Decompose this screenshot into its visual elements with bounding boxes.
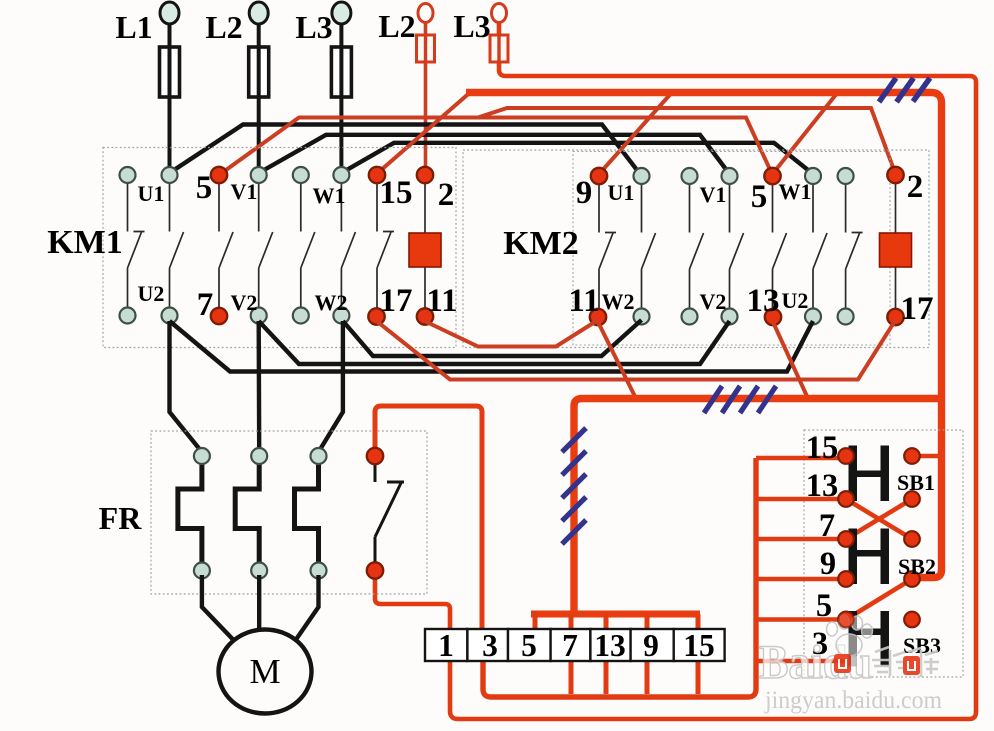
terminal L2 control (red) xyxy=(418,4,433,23)
wire motor bus W (KM1-W2 to KM2) xyxy=(343,320,642,356)
svg-text:13: 13 xyxy=(594,628,626,663)
svg-text:2: 2 xyxy=(438,177,455,213)
contactor KM2 inner box xyxy=(573,152,890,346)
KM2 red terminals 9 5 2 11 13 17 xyxy=(590,167,904,325)
svg-text:L3: L3 xyxy=(453,8,490,44)
svg-text:V1: V1 xyxy=(700,182,727,207)
KM1 top terminals gray xyxy=(120,167,350,183)
svg-text:5: 5 xyxy=(751,179,768,215)
cable thick middle (red) to terminal strip manifold xyxy=(574,399,945,613)
svg-text:U2: U2 xyxy=(138,281,165,306)
watermark Baidu Jingyan xyxy=(759,615,943,714)
coil KM2 xyxy=(880,233,912,267)
wire L3 control (red): right loop down to bottom bus and FR return xyxy=(375,20,976,719)
svg-text:U2: U2 xyxy=(782,288,809,313)
pushbutton SB2 xyxy=(849,529,890,585)
cable hatch marks top right xyxy=(879,78,930,102)
svg-text:KM2: KM2 xyxy=(503,225,579,262)
wire through red fuses xyxy=(426,36,500,61)
wire L2 control vertical (red) to KM1 terminal 2 xyxy=(424,20,428,174)
fuse FU4 (red) xyxy=(417,35,435,62)
FR NC contact xyxy=(375,462,404,564)
svg-text:U1: U1 xyxy=(608,180,635,205)
strip teeth above xyxy=(535,611,698,630)
wire SB1 cross links (red) xyxy=(846,499,912,539)
fuse FU5 (red) xyxy=(490,35,508,62)
svg-text:jingyan.baidu.com: jingyan.baidu.com xyxy=(764,687,942,714)
svg-text:5: 5 xyxy=(196,170,213,206)
KM1 red terminals 5 15 2 7 17 11 xyxy=(211,167,433,325)
button terminals red dots xyxy=(838,448,920,627)
FR NC terminals red xyxy=(367,448,383,579)
svg-text:9: 9 xyxy=(576,175,593,211)
wire branch to KM2 coil terminal 2 (red) xyxy=(478,108,896,174)
wire net 5 (KM1-5 to KM2-5, red) xyxy=(219,118,773,176)
coil KM1 xyxy=(409,233,441,267)
pushbutton SB1 xyxy=(849,446,890,502)
svg-text:9: 9 xyxy=(643,628,659,663)
coil KM1 wire xyxy=(424,183,426,309)
terminal L3 control (red) xyxy=(492,4,507,23)
FR terminals gray top xyxy=(194,448,327,464)
svg-text:9: 9 xyxy=(820,546,836,582)
wire SB1 top right to cable (red) xyxy=(912,454,942,459)
svg-text:1: 1 xyxy=(438,628,454,663)
svg-text:15: 15 xyxy=(806,430,839,466)
wire FR heater 3 to motor xyxy=(296,575,319,640)
wire KM1-U2 to FR heater 1 xyxy=(170,321,202,452)
wire trunk stubs to buttons (red) xyxy=(756,458,846,661)
contactor KM2 contacts xyxy=(599,184,863,309)
svg-text:11: 11 xyxy=(426,283,457,319)
cable hatch marks vertical riser xyxy=(562,428,586,544)
svg-text:15: 15 xyxy=(380,175,413,211)
fuse FU3 xyxy=(331,47,351,97)
svg-text:W2: W2 xyxy=(602,289,635,314)
wire net 11 (KM1-11 to KM2-11, red) xyxy=(425,320,599,347)
svg-text:17: 17 xyxy=(901,291,934,327)
wire L2 xyxy=(257,22,261,175)
wire motor bus U (KM1-U2 to KM2) xyxy=(170,321,814,372)
svg-text:17: 17 xyxy=(380,283,413,319)
wire black bus 3 (L3 to KM2 W1) xyxy=(341,143,813,174)
wire KM2-9 riser to thick cable xyxy=(599,94,671,175)
wire L1 xyxy=(168,22,172,175)
fuse FU2 xyxy=(249,47,269,97)
svg-text:13: 13 xyxy=(747,283,780,319)
contactor KM1 box xyxy=(103,148,456,348)
motor M xyxy=(219,630,312,714)
svg-text:W2: W2 xyxy=(315,290,348,315)
button box xyxy=(804,430,963,677)
wire FR heater 1 to motor xyxy=(202,575,233,640)
wire SB2 to SB3 link (red) xyxy=(846,579,912,620)
wire black bus 2 (L2 to KM2) xyxy=(259,135,730,174)
fuse FU1 xyxy=(160,47,180,97)
cable hatch marks middle xyxy=(704,386,776,413)
FR terminals gray bottom xyxy=(194,563,327,579)
wire motor bus V (KM1-V2 to KM2) xyxy=(259,321,730,364)
KM2 bottom terminals gray xyxy=(634,309,854,325)
svg-text:V2: V2 xyxy=(700,289,727,314)
svg-text:7: 7 xyxy=(197,287,214,323)
wire FR NC top to strip cell 3 (red) xyxy=(375,406,482,629)
svg-text:W1: W1 xyxy=(313,183,346,208)
FR heater element 1 xyxy=(178,462,202,564)
contactor KM1 contacts xyxy=(128,183,395,308)
FR heater element 3 xyxy=(295,462,319,564)
FR heater element 2 xyxy=(235,462,259,564)
svg-text:15: 15 xyxy=(683,628,715,663)
svg-text:KM1: KM1 xyxy=(47,224,123,261)
pushbutton SB3 xyxy=(849,611,890,667)
terminal L3 xyxy=(332,2,351,24)
svg-text:L3: L3 xyxy=(295,9,332,45)
wire black bus 1 (L1 to KM2 U1) xyxy=(170,125,641,175)
svg-text:L1: L1 xyxy=(115,9,152,45)
wire FR heater 2 to motor xyxy=(257,575,261,631)
relay FR box xyxy=(151,431,427,594)
wire L3 xyxy=(339,22,343,175)
strip manifold above (red) xyxy=(531,611,700,618)
wire KM1-V2 to FR heater 2 xyxy=(257,321,262,452)
wire net 17 (KM1-17 to KM2-17, red) xyxy=(377,320,896,380)
strip teeth below and collector bar to button trunk xyxy=(483,458,756,697)
svg-text:7: 7 xyxy=(819,508,835,544)
svg-text:V1: V1 xyxy=(231,179,258,204)
svg-text:V2: V2 xyxy=(231,290,258,315)
svg-text:L2: L2 xyxy=(205,9,242,45)
wire KM2-11 drop to cable (red) xyxy=(598,322,636,399)
wire KM1-W2 to FR heater 3 xyxy=(319,321,343,452)
terminal L1 xyxy=(160,2,179,24)
wire KM2-5 riser to thick cable xyxy=(773,95,837,175)
wire KM1-15 riser to thick cable xyxy=(377,93,471,175)
wire through fuses xyxy=(170,48,342,96)
svg-text:U1: U1 xyxy=(138,181,165,206)
svg-text:5: 5 xyxy=(521,628,537,663)
wire KM2-13 drop to cable (red) xyxy=(773,322,808,399)
svg-text:13: 13 xyxy=(806,468,839,504)
svg-text:SB2: SB2 xyxy=(898,554,936,579)
contactor KM2 outer box xyxy=(463,150,929,348)
KM2 top terminals gray xyxy=(634,168,854,184)
svg-text:M: M xyxy=(249,652,280,691)
svg-text:5: 5 xyxy=(816,588,832,624)
svg-text:2: 2 xyxy=(907,169,924,205)
svg-text:W1: W1 xyxy=(779,179,812,204)
svg-text:L2: L2 xyxy=(378,8,415,44)
svg-text:7: 7 xyxy=(562,628,578,663)
svg-text:3: 3 xyxy=(482,628,498,663)
svg-text:11: 11 xyxy=(568,283,599,319)
coil KM2 wire xyxy=(895,184,897,308)
button SB3 terminal dot repaint xyxy=(838,612,854,628)
svg-text:SB1: SB1 xyxy=(897,470,935,495)
terminal strip boxes xyxy=(425,629,725,661)
KM1 bottom terminals gray xyxy=(120,308,350,324)
terminal L2 xyxy=(249,2,268,24)
cable thick top (red) down right side to button box xyxy=(466,93,942,578)
svg-text:FR: FR xyxy=(99,500,143,536)
